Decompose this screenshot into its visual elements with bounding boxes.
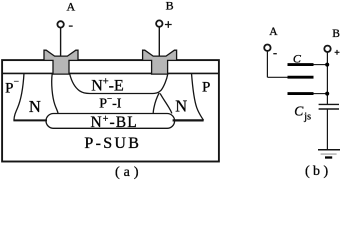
minus sign (b) [273, 53, 277, 55]
capacitor C middle plate [288, 76, 314, 79]
svg-text:(a): (a) [115, 165, 143, 180]
svg-text:(b): (b) [305, 164, 332, 179]
svg-text:P: P [5, 80, 13, 96]
junction node bottom [325, 92, 329, 96]
capacitor C bottom plate [288, 92, 314, 95]
surface oxide bottom line [2, 72, 219, 74]
terminal circle B (b) [324, 46, 330, 52]
Cjs top plate [319, 103, 339, 105]
svg-text:N+-BL: N+-BL [91, 114, 138, 131]
svg-text:−: − [14, 78, 19, 88]
left buried-layer link line [13, 119, 47, 121]
wire bottom plate to node [314, 93, 328, 95]
contact A metallization (wings + plug) [44, 50, 78, 74]
svg-text:B: B [332, 28, 340, 40]
ground bar 1 [318, 149, 340, 151]
ground bar 2 [321, 153, 337, 155]
Cjs bottom plate [319, 108, 339, 110]
contact B metallization (wings + plug) [143, 50, 177, 74]
svg-text:A: A [67, 0, 76, 14]
N+-BL buried layer capsule [46, 114, 175, 129]
plus sign at B [165, 21, 172, 28]
ground bar 3 [325, 156, 332, 158]
wire from A down [266, 51, 268, 77]
svg-text:N: N [29, 97, 41, 116]
funnel boundary right branch under B [160, 93, 172, 113]
svg-text:N+-E: N+-E [91, 77, 124, 95]
N/P boundary right curve [192, 73, 204, 120]
wire Cjs to ground [326, 109, 328, 150]
P-/N isolation boundary left curve [14, 73, 24, 120]
wire terminal B [158, 27, 160, 57]
wire B down to Cjs [326, 52, 328, 104]
terminal circle A [57, 21, 63, 27]
svg-text:P: P [202, 79, 210, 95]
svg-text:N: N [175, 97, 187, 116]
terminal circle A (b) [264, 45, 270, 51]
wire A to middle plate [267, 76, 287, 78]
svg-text:C: C [294, 103, 304, 118]
svg-text:A: A [269, 26, 278, 38]
N+-E emitter tub outline [70, 74, 168, 94]
funnel boundary left branch under B [153, 93, 159, 114]
curve under contact A (left side of plug diffusion) [52, 74, 58, 114]
svg-text:C: C [293, 52, 302, 66]
minus sign at A [69, 25, 73, 27]
terminal circle B [156, 20, 162, 26]
svg-text:P-SUB: P-SUB [84, 135, 141, 152]
wire terminal A [60, 28, 62, 57]
junction node top [325, 63, 329, 67]
svg-text:B: B [166, 0, 174, 13]
right buried-layer thick link line [173, 119, 204, 121]
capacitor C top plate [288, 63, 314, 66]
plus sign (b) [335, 50, 340, 55]
svg-text:js: js [303, 112, 311, 123]
substrate box outline [2, 60, 219, 161]
svg-text:P−-I: P−-I [99, 93, 122, 111]
wire top plate to node [314, 64, 328, 66]
